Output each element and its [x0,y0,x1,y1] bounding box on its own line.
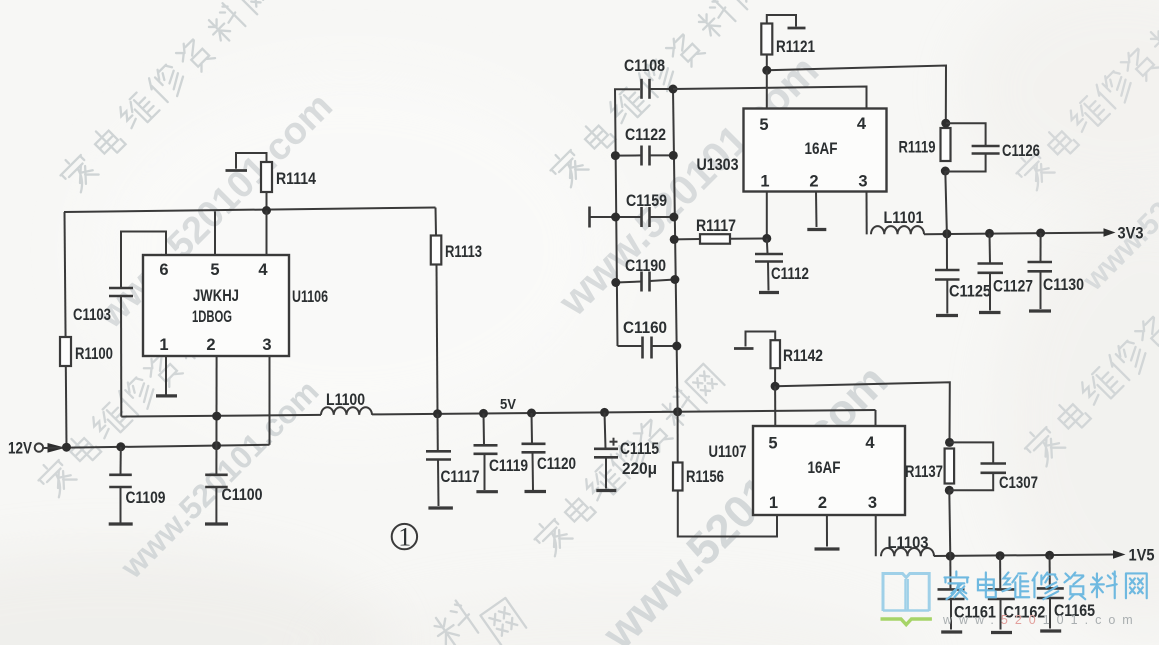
U1106 pin 4 [258,261,268,279]
wire U1107 pin3 down [875,515,877,556]
capacitor C1190 [611,257,679,292]
svg-text:6: 6 [159,261,168,279]
capacitor C1122 [611,126,678,166]
svg-text:C1108: C1108 [624,57,665,75]
svg-text:C1117: C1117 [441,468,480,486]
watermark band right [1020,255,1159,468]
svg-text:1DBOG: 1DBOG [192,308,232,326]
wire C1108 to U1303 pin4 [673,87,867,109]
U1107 pin 1 [769,494,778,512]
U1106 pin 2 [206,336,215,354]
resistor R1119 [899,119,951,234]
svg-text:C1130: C1130 [1043,276,1084,294]
resistor R1121 [761,24,815,71]
U1303 pin 1 [760,173,769,191]
wire 3V3 rail [924,233,1104,235]
capacitor C1162 [988,556,1046,633]
capacitor C1165 [1037,555,1095,631]
junction dots 5V rail [212,407,682,420]
U1107 pin 4 [865,434,875,452]
arrow 1V5 [1113,546,1155,565]
wire U1107 pin2 to ground [815,515,840,549]
svg-text:1: 1 [159,336,168,354]
watermark band center [529,364,724,558]
U1106 pin 6 [159,261,168,279]
watermark url bottom-left [113,373,326,586]
svg-text:1: 1 [760,173,769,191]
svg-text:220μ: 220μ [622,460,657,478]
svg-text:U1106: U1106 [292,288,328,306]
svg-text:R1100: R1100 [75,345,113,363]
svg-text:C1127: C1127 [993,278,1033,296]
svg-text:C1159: C1159 [626,192,667,210]
junction dots 12V rail [62,441,221,452]
svg-text:U1303: U1303 [697,155,739,174]
svg-text:1V5: 1V5 [1129,546,1155,565]
svg-text:R1114: R1114 [276,170,317,188]
wire U1303 pin3 down [866,192,868,235]
capacitor C1127 [978,233,1034,312]
capacitor C1117 [426,414,480,508]
svg-text:L1103: L1103 [888,534,929,552]
wire R1156 to U1107 pin1 [678,491,777,537]
U1303 pin 5 [759,116,768,134]
svg-text:2: 2 [206,336,215,354]
U1303 pin 3 [858,173,867,191]
capacitor C1160 [618,319,682,359]
wire U1303 pin5 up [766,70,768,108]
svg-text:4: 4 [258,261,268,279]
svg-text:R1117: R1117 [696,217,736,235]
capacitor C1100 [205,475,263,524]
circled figure number 1 [392,523,417,552]
wire U1106 pin1 to ground [165,356,167,395]
svg-text:2: 2 [818,494,827,512]
capacitor C1115 (electrolytic) [594,412,618,490]
watermark url top-left [89,85,341,337]
svg-text:4: 4 [865,434,875,452]
svg-text:C1115: C1115 [620,440,659,458]
wire U1106 pin5 up [214,211,216,255]
terminal stub left of C1159 [590,207,642,228]
svg-text:C1120: C1120 [537,455,576,473]
capacitor C1103 [73,288,133,324]
logo url www.520101.com [942,613,1140,627]
watermark band top-center [545,0,765,189]
wire R1121 node to R1119 [762,66,946,124]
svg-text:R1113: R1113 [445,243,482,261]
resistor R1142 [771,340,824,386]
wire R1142 node to R1137 [771,382,950,443]
svg-text:C1160: C1160 [623,319,667,337]
watermark url right [1076,99,1159,298]
svg-text:16AF: 16AF [808,459,841,477]
svg-text:L1100: L1100 [326,391,365,409]
svg-text:C1119: C1119 [489,457,528,475]
ground (U1106 pin1) [156,394,177,397]
svg-text:4: 4 [857,115,867,133]
U1106 pin 3 [262,336,271,354]
capacitor C1125 [935,234,991,316]
svg-text:R1142: R1142 [783,347,823,365]
svg-text:C1125: C1125 [949,283,991,301]
U1303 pin 2 [809,173,818,191]
wire ladder left rail [615,89,640,346]
capacitor C1161 [938,556,997,632]
junction dot C1108 right [669,85,678,94]
U1106 text JWKHJ 1DBOG [192,287,239,326]
U1106 pin 1 [159,336,168,354]
node A junction dot [262,206,271,215]
svg-text:5V: 5V [500,396,516,413]
IC U1106 [143,255,328,356]
inductor L1100 [321,391,372,415]
inductor L1103 [881,534,934,556]
svg-text:JWKHJ: JWKHJ [193,287,239,305]
ground (R1114) [226,153,267,171]
capacitor C1120 [522,413,577,492]
IC U1303 [697,109,887,192]
watermark url center [548,46,827,325]
node 12V terminal [8,439,66,458]
wire U1106 pin4 up [266,211,268,256]
U1303 pin 4 [857,115,867,133]
svg-text:R1121: R1121 [776,38,815,56]
svg-text:3: 3 [868,494,877,512]
svg-text:3V3: 3V3 [1118,224,1144,243]
wire 1V5 rail [934,555,1113,557]
capacitor C1108 [624,57,673,99]
capacitor C1109 [109,447,166,524]
watermark band mid-left [33,296,237,499]
svg-text:2: 2 [809,173,818,191]
wire C1103 down to 5V rail corner [120,296,122,417]
capacitor C1119 [474,413,529,491]
wire U1303 pin2 to ground [807,192,826,230]
wire U1106 pin2 down [215,356,217,475]
svg-text:C1112: C1112 [771,265,809,283]
svg-text:3: 3 [858,173,867,191]
svg-text:C1126: C1126 [1002,142,1040,160]
wire U1106 pin3 down to 12V [269,356,271,445]
capacitor C1159 [611,192,678,227]
capacitor C1307 [949,442,1038,492]
IC U1107 [709,426,906,515]
arrow 3V3 [1104,224,1144,243]
wire node-A top horizontal [64,208,436,213]
wire U1107 pin5 up [774,386,776,426]
logo book icon [881,574,932,625]
svg-text:5: 5 [759,116,768,134]
svg-text:C1122: C1122 [625,126,666,144]
wire 5V rail left segment [121,415,321,417]
capacitor C1130 [1028,233,1085,311]
resistor R1137 [905,438,954,556]
svg-text:www.520101.com: www.520101.com [942,613,1140,627]
wire U1303 pin1 down [762,192,771,243]
svg-text:L1101: L1101 [884,209,924,227]
U1107 pin 5 [768,435,777,453]
svg-text:1: 1 [398,523,411,552]
resistor R1114 [261,162,317,211]
watermark band top-right [1011,0,1159,192]
wire ladder right rail [673,89,678,412]
value label C1115 220u [620,440,659,478]
wire U1106 pin6 to C1103 [121,232,166,288]
wire 5V rail right segment [372,410,876,414]
svg-text:R1137: R1137 [905,463,943,481]
watermark char bottom-center [427,598,526,645]
svg-text:C1103: C1103 [73,306,111,324]
U1107 pin 2 [818,494,827,512]
net label 5V [500,396,516,413]
svg-text:C1100: C1100 [222,486,263,504]
resistor R1156 [673,412,724,491]
svg-text:C1190: C1190 [625,257,666,275]
junction dots 1V5 rail [946,551,1054,561]
logo text jiadian weixiu ziliao wang [944,571,1146,599]
svg-text:U1107: U1107 [709,442,747,461]
svg-text:R1156: R1156 [686,468,724,486]
wire 12V rail [43,445,270,448]
watermark url bottom-center [592,354,898,645]
wire left vertical with R1100 [65,212,67,447]
svg-text:16AF: 16AF [805,140,838,158]
svg-text:5: 5 [210,261,219,279]
capacitor C1112 [755,238,809,292]
watermark band top-left [55,0,275,194]
svg-text:C1109: C1109 [126,489,166,507]
U1303 text 16AF [805,140,838,158]
svg-text:C1307: C1307 [999,474,1038,492]
U1106 pin 5 [210,261,219,279]
junction dots 3V3 rail [942,229,1045,239]
inductor L1101 [871,209,924,234]
svg-text:R1119: R1119 [899,139,936,157]
svg-text:1: 1 [769,494,778,512]
ground (R1142) [734,332,775,349]
resistor R1117 [670,217,767,244]
svg-text:12V: 12V [8,439,33,458]
capacitor C1126 [945,123,1040,171]
svg-text:3: 3 [262,336,271,354]
ground (R1121) [767,15,806,28]
U1107 text 16AF [808,459,841,477]
svg-text:5: 5 [768,435,777,453]
resistor R1100 [60,337,113,366]
U1107 pin 3 [868,494,877,512]
wire 5V rail to U1107 pin4 [875,410,877,426]
resistor R1113 [431,208,482,414]
